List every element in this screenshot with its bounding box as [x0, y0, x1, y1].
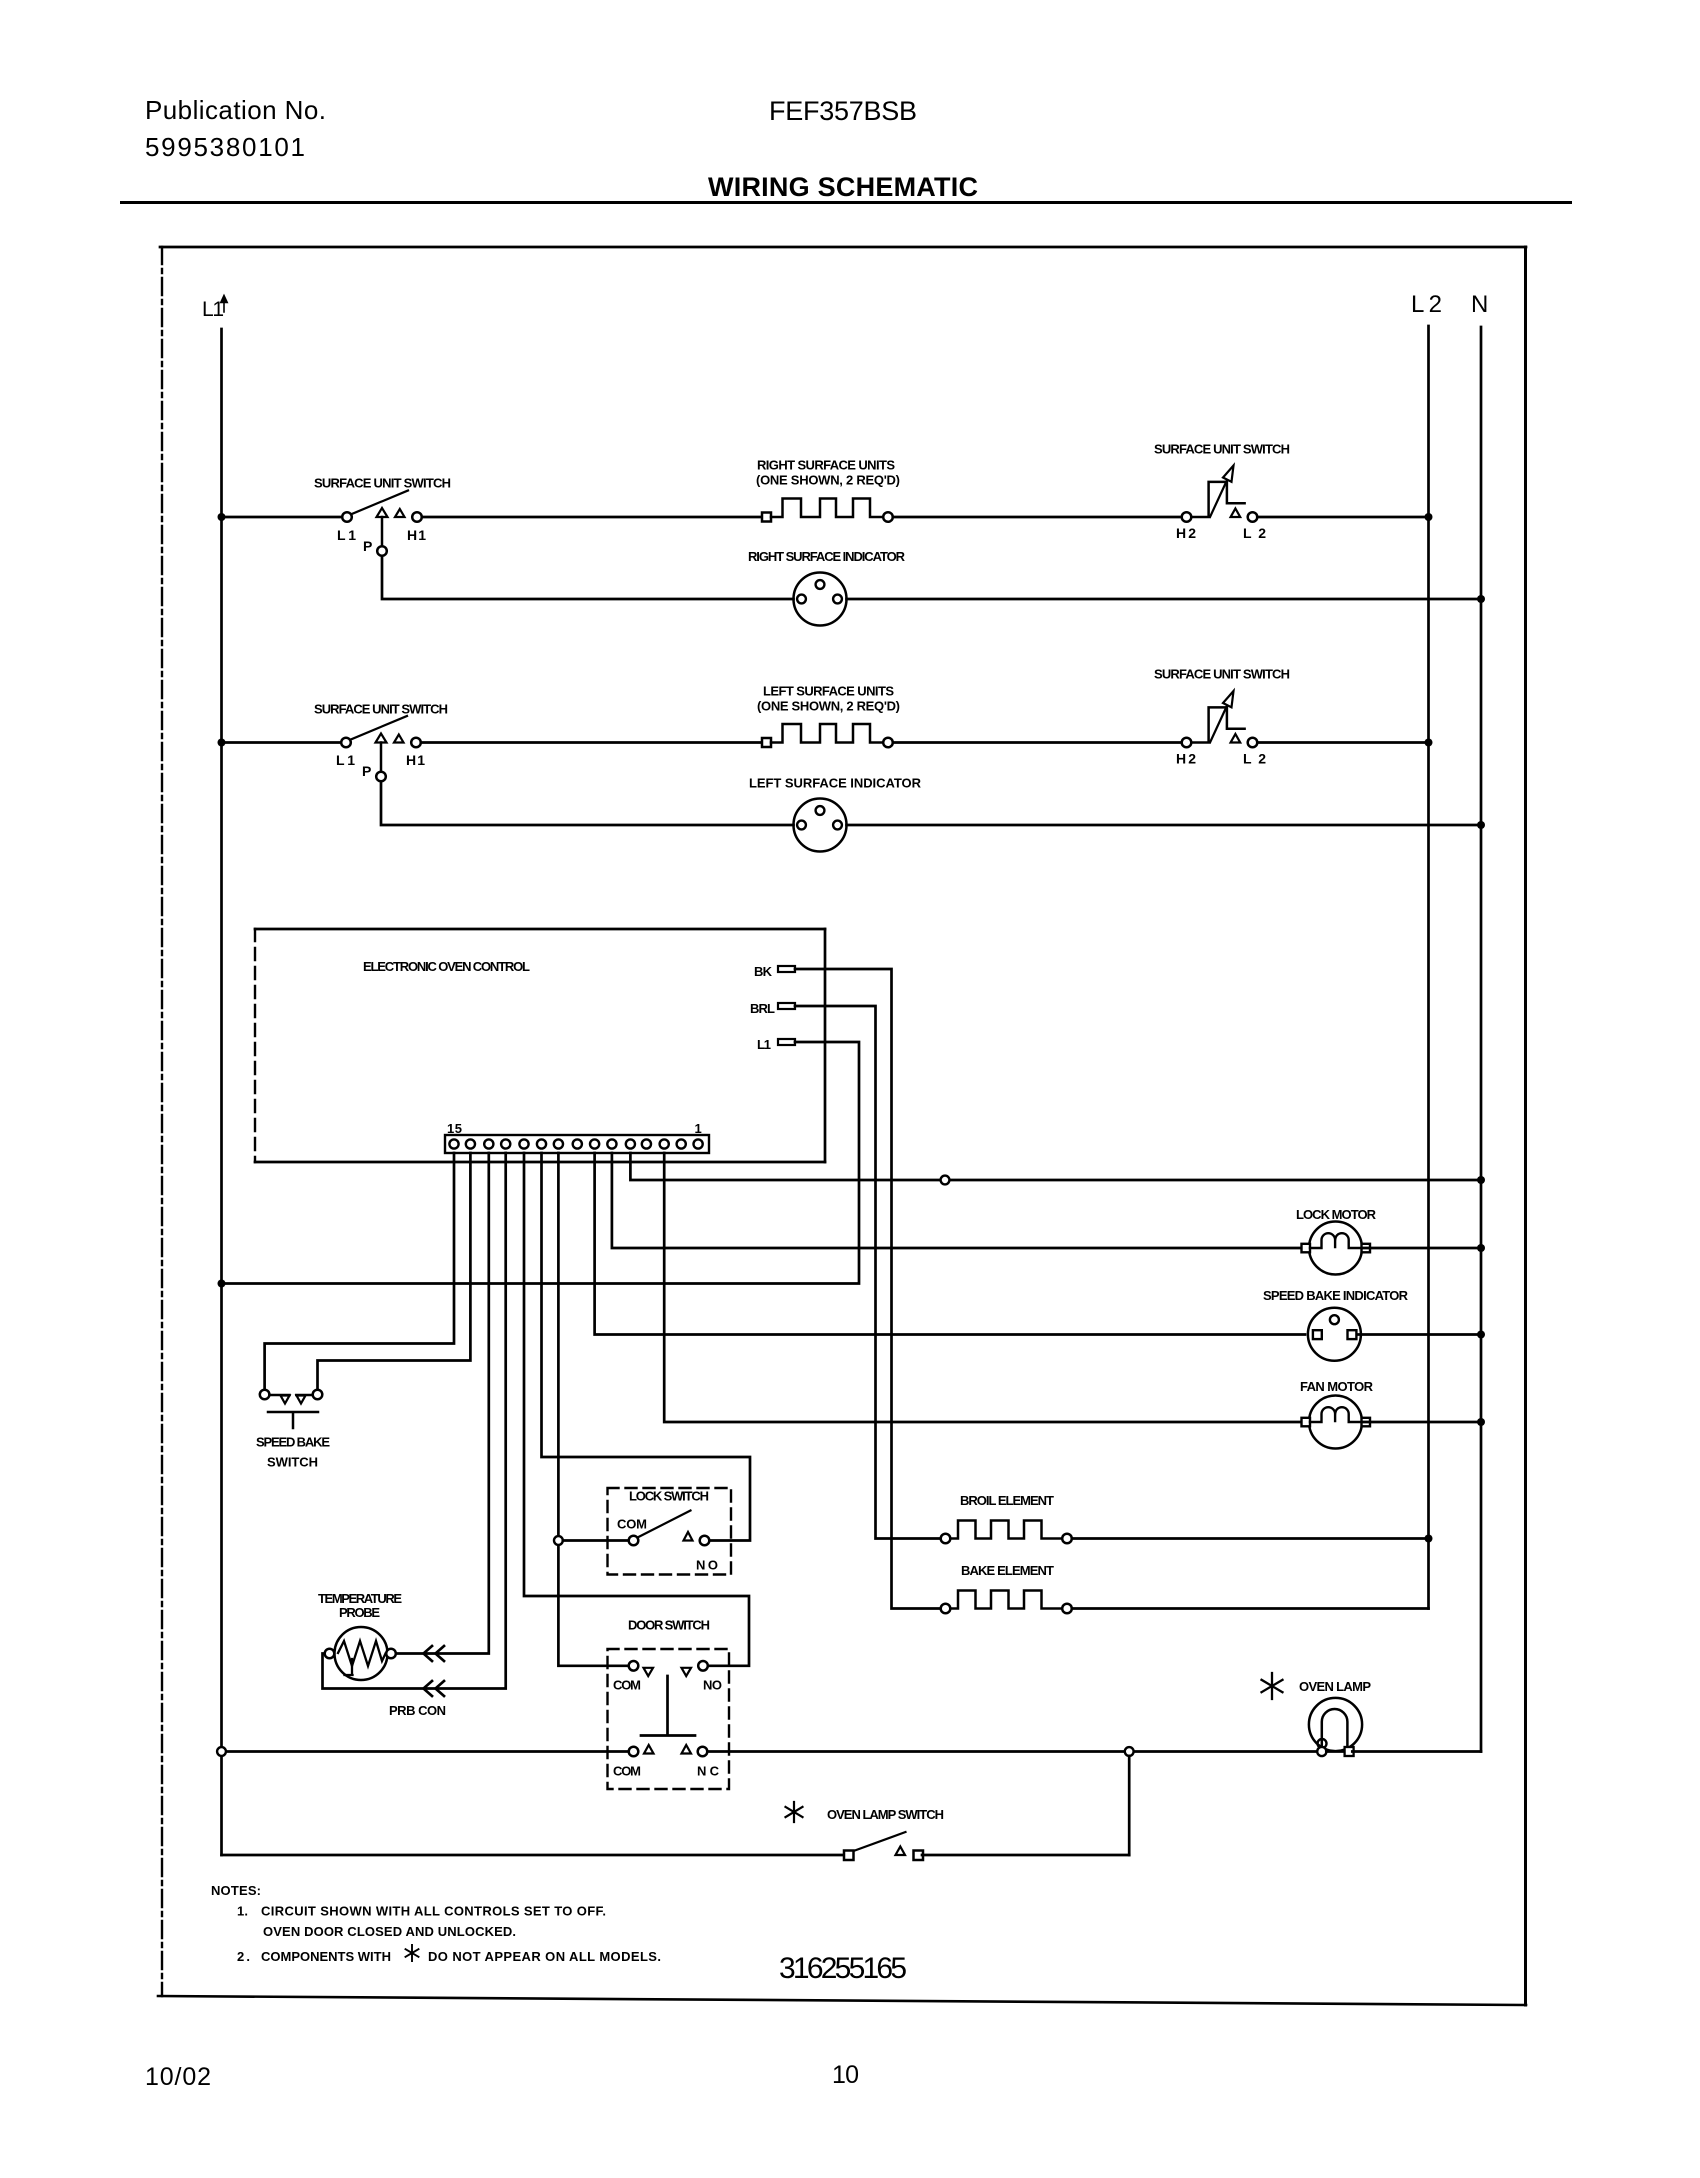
temperature probe	[325, 1627, 396, 1680]
junction on L2 rail row1	[1425, 513, 1433, 521]
EOC pin BK lug	[778, 966, 795, 972]
svg-text:COM: COM	[613, 1678, 641, 1693]
wire bottom line right segment to N rail	[1352, 1750, 1481, 1753]
indicator lamp: left surface indicator	[794, 799, 847, 852]
svg-text:OVEN LAMP: OVEN LAMP	[1299, 1679, 1371, 1694]
wire H1 to right surface units element	[422, 516, 762, 519]
outer border top	[160, 246, 1526, 249]
oven lamp switch	[844, 1832, 923, 1860]
asterisk for oven lamp switch	[786, 1802, 803, 1822]
svg-text:1.: 1.	[237, 1904, 248, 1919]
connector pin 4	[642, 1139, 651, 1148]
wire pin11 to door switch NO	[524, 1153, 749, 1666]
asterisk for oven lamp	[1262, 1673, 1283, 1699]
connector pin 6	[607, 1139, 616, 1148]
wire pin9 to lock COM and door COM	[558, 1153, 628, 1666]
svg-text:LEFT SURFACE UNITS: LEFT SURFACE UNITS	[763, 684, 894, 699]
wire indicator to N rail	[847, 824, 1482, 827]
wire pin3 to fan motor	[664, 1153, 1306, 1422]
svg-text:CIRCUIT SHOWN WITH ALL CONTROL: CIRCUIT SHOWN WITH ALL CONTROLS SET TO O…	[261, 1904, 606, 1919]
junction fan motor on N rail	[1477, 1418, 1485, 1426]
EOC box left (dashed)	[254, 929, 256, 1162]
svg-text:ELECTRONIC OVEN CONTROL: ELECTRONIC OVEN CONTROL	[363, 959, 530, 974]
EOC box right	[824, 929, 827, 1162]
svg-text:SWITCH: SWITCH	[267, 1455, 318, 1470]
junction pin5 wire on N rail	[1477, 1176, 1485, 1184]
connector pin 14	[466, 1139, 475, 1148]
svg-text:OVEN DOOR CLOSED AND UNLOCKED.: OVEN DOOR CLOSED AND UNLOCKED.	[263, 1924, 516, 1939]
wire bake to L2 rail corner	[1072, 1607, 1429, 1610]
svg-text:SURFACE UNIT SWITCH: SURFACE UNIT SWITCH	[1154, 667, 1290, 682]
svg-text:(ONE SHOWN, 2 REQ'D): (ONE SHOWN, 2 REQ'D)	[757, 699, 900, 714]
motor M1: lock motor	[1302, 1222, 1371, 1275]
connector pin 8	[573, 1139, 582, 1148]
svg-text:(ONE SHOWN, 2 REQ'D): (ONE SHOWN, 2 REQ'D)	[756, 473, 900, 488]
connector pin 1	[694, 1139, 703, 1148]
wire pin6 to lock motor	[612, 1153, 1306, 1248]
indicator lamp: right surface indicator	[794, 573, 847, 626]
wire lamp switch to branch	[922, 1854, 1129, 1857]
wire indicator to N rail	[847, 598, 1482, 601]
wire lamp switch line from L1 rail	[222, 1854, 844, 1857]
svg-text:SPEED BAKE: SPEED BAKE	[256, 1435, 330, 1450]
wire fan motor to N rail	[1362, 1421, 1481, 1424]
svg-text:N: N	[1471, 291, 1488, 318]
wire H1 to left surface units element	[421, 741, 762, 744]
wire broil to L2 rail	[1072, 1537, 1429, 1540]
surface unit switch SW1 (left, row1)	[342, 491, 422, 556]
junction bead left rail bottom	[217, 1747, 226, 1756]
svg-text:BROIL ELEMENT: BROIL ELEMENT	[960, 1493, 1054, 1508]
connector pin 9	[554, 1139, 563, 1148]
connector pin 3	[660, 1139, 669, 1148]
wire SW4 to L2 rail	[1257, 741, 1428, 744]
wire between lamp terminals	[1326, 1750, 1342, 1753]
outer border bottom	[158, 1996, 1526, 2005]
connector pin 2	[677, 1139, 686, 1148]
svg-text:2.: 2.	[237, 1949, 250, 1964]
probe connector chevrons lower	[424, 1681, 445, 1696]
outer border right	[1524, 247, 1527, 2005]
EOC pin BRL lug	[778, 1003, 795, 1009]
svg-text:PRB CON: PRB CON	[389, 1703, 446, 1718]
svg-text:WIRING SCHEMATIC: WIRING SCHEMATIC	[708, 172, 978, 202]
svg-text:NO: NO	[703, 1678, 722, 1693]
connector pin 13	[484, 1139, 493, 1148]
svg-text:H2: H2	[1176, 751, 1196, 767]
svg-text:RIGHT SURFACE INDICATOR: RIGHT SURFACE INDICATOR	[748, 549, 906, 564]
svg-text:H1: H1	[407, 527, 426, 543]
door switch dashed box	[608, 1649, 730, 1789]
EOC box bottom	[255, 1161, 825, 1164]
wire P to left surface indicator	[381, 781, 794, 825]
wire pin14 to speed bake switch	[318, 1153, 471, 1390]
junction on N rail row2 indicator	[1477, 821, 1485, 829]
svg-text:FEF357BSB: FEF357BSB	[769, 96, 917, 126]
surface unit switch SW2 (right, row1)	[1182, 466, 1258, 522]
svg-text:Publication No.: Publication No.	[145, 95, 326, 125]
wire: L2 rail	[1427, 326, 1430, 1609]
wire: N rail	[1480, 327, 1483, 1752]
resistor: right surface units	[762, 499, 893, 522]
EOC box top	[255, 928, 825, 931]
L1 top arrow	[221, 296, 227, 313]
svg-text:L1: L1	[757, 1037, 771, 1052]
resistor: bake element	[941, 1591, 1072, 1614]
wire SW2 to L2 rail	[1257, 516, 1428, 519]
junction broil on L2 rail	[1425, 1535, 1433, 1543]
wire BK to bake element	[795, 969, 941, 1609]
junction on L1 rail row1	[218, 513, 226, 521]
wire element to switch SW2	[893, 516, 1182, 519]
svg-text:316255165: 316255165	[779, 1952, 907, 1985]
svg-text:OVEN LAMP SWITCH: OVEN LAMP SWITCH	[827, 1807, 944, 1822]
svg-text:5995380101: 5995380101	[145, 132, 305, 162]
svg-text:COM: COM	[617, 1517, 647, 1532]
resistor: broil element	[941, 1521, 1072, 1544]
svg-text:COMPONENTS WITH: COMPONENTS WITH	[261, 1949, 391, 1964]
svg-text:RIGHT SURFACE UNITS: RIGHT SURFACE UNITS	[757, 458, 895, 473]
svg-text:LOCK MOTOR: LOCK MOTOR	[1296, 1207, 1377, 1222]
lamp: oven lamp	[1309, 1698, 1362, 1756]
svg-text:SPEED BAKE INDICATOR: SPEED BAKE INDICATOR	[1263, 1288, 1409, 1303]
junction lock motor on N rail	[1477, 1244, 1485, 1252]
EOC connector strip	[445, 1135, 709, 1153]
connector pin 10	[537, 1139, 546, 1148]
outer border left (dash-dot)	[161, 247, 163, 1996]
svg-text:1: 1	[695, 1121, 702, 1136]
svg-text:P: P	[363, 538, 372, 554]
wire pin13 to temperature probe	[396, 1153, 489, 1654]
junction bead pin9/lock COM	[554, 1536, 563, 1545]
wire P to right surface indicator	[382, 556, 794, 599]
wire pin7 to speed bake indicator	[595, 1153, 1305, 1335]
wire lock COM feed	[563, 1539, 629, 1542]
indicator lamp: speed bake indicator	[1308, 1308, 1361, 1361]
svg-text:BRL: BRL	[750, 1001, 775, 1016]
door switch actuator link	[641, 1676, 695, 1736]
svg-text:10: 10	[832, 2061, 859, 2089]
svg-text:15: 15	[447, 1121, 462, 1136]
wire lamp switch branch vertical	[1128, 1756, 1131, 1855]
connector bead on pin5 wire	[941, 1176, 950, 1185]
wire pin10 to lock switch NO	[542, 1153, 751, 1541]
resistor: left surface units	[762, 724, 893, 747]
surface unit switch SW4 (right, row2)	[1182, 691, 1258, 747]
svg-text:COM: COM	[613, 1764, 641, 1779]
svg-text:BAKE ELEMENT: BAKE ELEMENT	[961, 1563, 1054, 1578]
wire BRL to broil element	[795, 1006, 941, 1539]
wire pin12 to probe return	[323, 1153, 506, 1689]
svg-text:LOCK SWITCH: LOCK SWITCH	[629, 1489, 709, 1504]
wire pin5 to N rail	[630, 1153, 1481, 1180]
lock switch dashed box	[608, 1488, 732, 1575]
svg-text:TEMPERATURE: TEMPERATURE	[318, 1591, 402, 1606]
wire bottom line mid segment	[707, 1750, 1316, 1753]
svg-text:DOOR SWITCH: DOOR SWITCH	[628, 1618, 710, 1633]
junction on L1 rail for L1 pin wire	[218, 1280, 226, 1288]
connector pin 15	[449, 1139, 458, 1148]
wire element to switch SW4	[893, 741, 1182, 744]
svg-text:PROBE: PROBE	[339, 1605, 380, 1620]
note 2 asterisk	[406, 1945, 419, 1961]
wire pin15 to speed bake switch	[265, 1153, 454, 1390]
svg-text:10/02: 10/02	[145, 2063, 211, 2091]
junction sb indicator on N rail	[1477, 1331, 1485, 1339]
speed bake switch	[260, 1390, 323, 1428]
svg-text:NO: NO	[696, 1558, 718, 1573]
wire lock motor to N rail	[1362, 1247, 1481, 1250]
connector pin 5	[626, 1139, 635, 1148]
EOC pin L1 lug	[778, 1039, 795, 1045]
junction bead lamp switch branch	[1125, 1747, 1134, 1756]
svg-text:FAN MOTOR: FAN MOTOR	[1300, 1379, 1374, 1394]
junction on L2 rail row2	[1425, 739, 1433, 747]
svg-text:P: P	[362, 763, 371, 779]
svg-text:LEFT SURFACE INDICATOR: LEFT SURFACE INDICATOR	[749, 776, 922, 791]
junction on L1 rail row2	[218, 739, 226, 747]
motor M2: fan motor	[1302, 1396, 1371, 1449]
junction on N rail row1 indicator	[1477, 595, 1485, 603]
probe connector chevrons upper	[424, 1646, 445, 1661]
lock switch contacts	[629, 1511, 710, 1546]
wire: L1 rail	[220, 329, 223, 1855]
connector pin 7	[590, 1139, 599, 1148]
svg-text:SURFACE UNIT SWITCH: SURFACE UNIT SWITCH	[314, 702, 448, 717]
wire row2 from L1 rail to switch	[222, 741, 342, 744]
surface unit switch SW3 (left, row2)	[341, 716, 421, 781]
svg-text:BK: BK	[754, 964, 773, 979]
door switch lower pole	[629, 1745, 708, 1756]
wire row1 from L1 rail to switch	[222, 516, 343, 519]
svg-text:H2: H2	[1176, 525, 1196, 541]
wire speed bake indicator to N rail	[1358, 1333, 1481, 1336]
svg-text:NOTES:: NOTES:	[211, 1883, 261, 1898]
svg-text:DO NOT APPEAR ON ALL MODELS.: DO NOT APPEAR ON ALL MODELS.	[428, 1949, 661, 1964]
wire bottom line left segment	[222, 1750, 629, 1753]
wire L1 pin to L1 rail	[222, 1042, 860, 1284]
header rule	[120, 201, 1572, 204]
svg-text:SURFACE UNIT SWITCH: SURFACE UNIT SWITCH	[314, 476, 451, 491]
svg-text:SURFACE UNIT SWITCH: SURFACE UNIT SWITCH	[1154, 442, 1290, 457]
door switch upper pole	[629, 1661, 708, 1676]
connector pin 12	[501, 1139, 510, 1148]
svg-text:H1: H1	[406, 752, 425, 768]
connector pin 11	[519, 1139, 528, 1148]
